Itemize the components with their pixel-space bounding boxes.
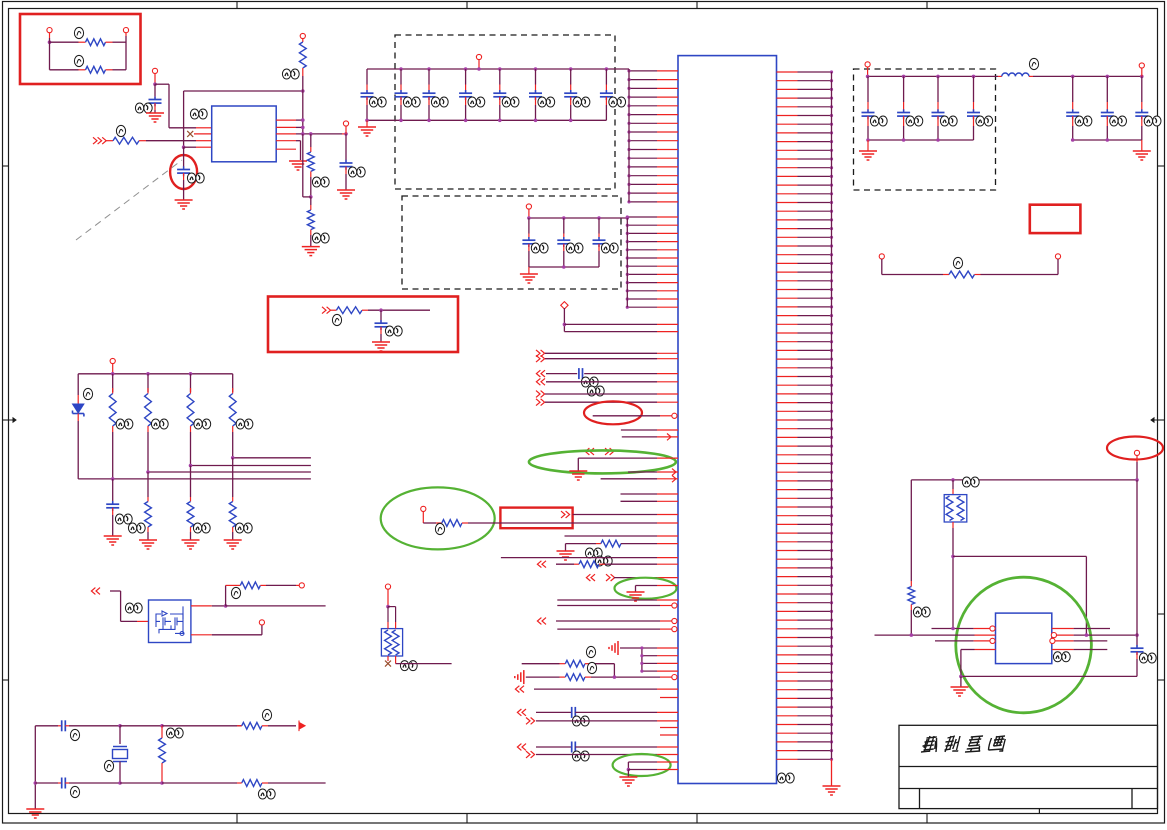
resistor RA1 label xyxy=(151,419,168,429)
cap bank 4 bottom rail xyxy=(1071,138,1142,142)
zener diode D1 xyxy=(73,374,84,479)
short pin stub xyxy=(660,734,678,736)
main IC left pin group 2 with bus xyxy=(626,215,678,308)
capacitor C6 xyxy=(35,720,120,731)
input chevrons xyxy=(91,588,100,595)
wire xyxy=(110,591,149,621)
resistor RA2 of array xyxy=(187,374,194,466)
resistor R11 label xyxy=(166,728,183,738)
capacitor C33 of bank 3 xyxy=(967,76,980,140)
ground xyxy=(569,471,587,480)
capacitor C12 label xyxy=(431,97,448,107)
capacitor C11 xyxy=(1131,480,1144,677)
U2 right pin 1 net xyxy=(1052,628,1110,630)
resistor RA0 label xyxy=(116,419,133,429)
wire to U1 pin 1 xyxy=(155,84,212,128)
highlight box (red) around R1 R2 xyxy=(20,14,141,84)
port pin P2 xyxy=(123,28,128,70)
capacitor C8 label xyxy=(581,377,604,396)
ground xyxy=(104,536,122,545)
wire xyxy=(396,663,452,665)
decoupling capacitor C13 of bank 1 xyxy=(459,69,472,120)
node junction xyxy=(379,308,383,312)
signal line with series capacitor C10 xyxy=(517,742,678,753)
resistor R3 with port pin xyxy=(299,33,306,133)
port pin P11 xyxy=(1134,450,1139,480)
pulldown resistor RB1 xyxy=(187,466,194,541)
signal line to inverted pin xyxy=(557,627,677,632)
resistor pack RP1 xyxy=(381,622,402,664)
power pin for cap bank 2 xyxy=(526,204,531,218)
resistor R5 xyxy=(307,197,314,247)
U2 right pin 3 net xyxy=(1050,638,1108,643)
highlight ellipse (red) on port xyxy=(1107,437,1163,460)
resistor R1 xyxy=(50,39,127,46)
resistor R10 label xyxy=(262,709,271,720)
decoupling capacitor C14 of bank 1 xyxy=(493,69,506,120)
resistor R19 xyxy=(908,480,915,635)
decoupling capacitor C11 of bank 1 xyxy=(395,69,408,120)
branch wire to IC2 right xyxy=(951,555,1086,635)
U2 left pin 4 net xyxy=(961,650,996,677)
signal line xyxy=(557,599,678,601)
capacitor C14 label xyxy=(502,97,519,107)
capacitor C21 label xyxy=(566,243,583,253)
signal line xyxy=(621,500,679,502)
capacitor C6 label xyxy=(70,729,79,740)
signal line xyxy=(526,718,678,725)
resistor R12 label xyxy=(258,789,275,799)
bidir chevrons xyxy=(585,448,613,455)
cap bank 3 bottom rail xyxy=(866,138,973,142)
signal line with output chevrons xyxy=(536,391,678,398)
capacitor C30 label xyxy=(870,116,887,126)
decoupling capacitor C21 of bank 2 xyxy=(557,218,570,267)
node junction U1 pin4 xyxy=(182,145,212,149)
main IC right bus ground drop xyxy=(823,759,841,795)
resistor R7 xyxy=(331,307,430,314)
crystal Y1 label xyxy=(104,760,113,771)
signal line xyxy=(614,577,678,579)
highlight box (red) empty xyxy=(1030,205,1081,233)
capacitor C1 xyxy=(149,84,162,113)
resistor R12 xyxy=(237,780,326,787)
decoupling capacitor C22 of bank 2 xyxy=(593,218,606,267)
capacitor C30 of bank 3 xyxy=(862,76,875,140)
dual MOSFET Q1 body xyxy=(149,600,191,643)
highlight circle (green) around U2 xyxy=(956,577,1092,713)
highlight ellipse (green) 1 xyxy=(529,450,676,473)
main IC U1 reference label xyxy=(777,773,794,783)
ground xyxy=(337,190,355,199)
ground xyxy=(289,161,307,170)
short pin stub xyxy=(660,727,678,729)
company name text (CJK calligraphic) xyxy=(921,736,1007,752)
resistor R14 labels xyxy=(585,548,612,566)
node junction xyxy=(386,605,395,622)
capacitor C10 label xyxy=(369,97,386,107)
IC U1 reference label xyxy=(190,109,207,119)
no-connect X on U1 pin 2 xyxy=(187,131,212,137)
resistor R9 to port xyxy=(226,582,300,606)
ground xyxy=(358,120,376,136)
bidir chevrons xyxy=(586,574,614,581)
capacitor C41 label xyxy=(1110,116,1127,126)
signal line with input chevrons and resistor R15 xyxy=(537,561,678,568)
decoupling capacitor C16 of bank 1 xyxy=(564,69,577,120)
main IC right pin comb (80 pins) with vertical bus net xyxy=(777,70,834,761)
pulldown resistor RB0 xyxy=(145,472,152,540)
resistor R16 xyxy=(522,660,615,677)
no-connect X xyxy=(385,661,391,667)
resistor R1 label xyxy=(74,27,83,38)
port pin P4 xyxy=(110,358,115,373)
ground xyxy=(26,809,44,818)
resistor R2 label xyxy=(74,55,83,66)
resistor RB2 label xyxy=(235,523,252,533)
resistor RB1 label xyxy=(193,523,210,533)
decoupling capacitor C10 of bank 1 xyxy=(361,69,374,120)
decoupling capacitor C12 of bank 1 xyxy=(423,69,436,120)
resistor RA3 label xyxy=(236,419,253,429)
inductor L1 xyxy=(998,73,1033,76)
node junction xyxy=(153,82,157,86)
ground xyxy=(619,777,637,786)
resistor R6 xyxy=(106,137,212,144)
highlight ellipse (green) 2 xyxy=(381,487,495,549)
dashed group box 1 xyxy=(395,35,615,189)
capacitor C33 label xyxy=(976,116,993,126)
right rail after inductor xyxy=(1033,75,1144,79)
dashed group box 2 xyxy=(402,196,621,289)
resistor R13 label xyxy=(435,523,444,534)
resistor R4 xyxy=(307,134,314,197)
U2 right pin 4 net xyxy=(1052,649,1108,651)
port pin P8 with resistor R13 xyxy=(421,506,678,526)
resistor RA2 label xyxy=(194,419,211,429)
U2 bottom rail xyxy=(959,675,1137,679)
resistor R4 label xyxy=(312,177,329,187)
signal line xyxy=(621,429,678,431)
signal line to inverted pin xyxy=(557,603,677,608)
IC U1 body xyxy=(212,106,277,162)
resistor array top rail xyxy=(78,372,233,376)
ground xyxy=(182,540,200,549)
resistor R16 label xyxy=(586,646,595,657)
highlight box (red) on signal xyxy=(500,508,572,529)
capacitor C5 xyxy=(106,479,119,536)
highlight ellipse (red) xyxy=(584,401,642,424)
signal line with output chevrons xyxy=(536,350,678,357)
capacitor C31 of bank 3 xyxy=(897,76,910,140)
decoupling capacitor C17 of bank 1 xyxy=(600,69,613,120)
U2 left pin 1 net xyxy=(932,626,996,631)
cap bank 3 top rail xyxy=(866,75,998,79)
capacitor C41 of bank 4 xyxy=(1101,76,1114,140)
array output wires to bus xyxy=(78,456,311,481)
signal line with input chevrons and series capacitor C8 xyxy=(536,368,678,379)
decoupling capacitor C15 of bank 1 xyxy=(529,69,542,120)
IC U2 body xyxy=(996,613,1052,664)
capacitor C16 label xyxy=(573,97,590,107)
capacitor C9 label xyxy=(572,716,589,726)
signal line with arrow xyxy=(622,434,678,441)
capacitor C13 label xyxy=(468,97,485,107)
port pin P9 xyxy=(879,254,884,275)
Q1 drain wire xyxy=(191,604,326,608)
ground xyxy=(224,540,242,549)
capacitor C10 label xyxy=(572,751,589,761)
capacitor C4 xyxy=(375,310,388,342)
crystal bottom rail xyxy=(118,781,237,785)
capacitor C40 of bank 4 xyxy=(1066,76,1079,140)
resistor R11 xyxy=(159,726,166,783)
capacitor C1 label xyxy=(135,103,152,113)
bidir chevrons xyxy=(517,709,526,716)
resistor R18 label xyxy=(953,257,962,268)
Q1 source wire to port xyxy=(191,625,262,635)
capacitor C15 label xyxy=(538,97,555,107)
zener diode D1 label xyxy=(83,388,92,399)
resistor R2 xyxy=(50,66,127,73)
power pin xyxy=(1139,63,1144,77)
resistor R10 xyxy=(237,722,296,729)
capacitor C2 xyxy=(177,147,190,200)
wire xyxy=(162,725,242,727)
U1 right pin wires xyxy=(276,118,348,160)
grounded stub pair net xyxy=(627,762,678,777)
signal line long xyxy=(501,557,678,559)
net stub pair with pin diamond xyxy=(561,302,678,332)
IC U2 reference label xyxy=(1053,652,1070,662)
input port chevrons xyxy=(93,137,106,144)
inductor L1 label xyxy=(1029,58,1038,69)
capacitor C7 xyxy=(35,778,120,789)
signal line with input chevrons to inverted pin xyxy=(537,618,677,625)
highlight box (red) around RC filter xyxy=(268,297,458,353)
decoupling capacitor C20 of bank 2 xyxy=(522,218,535,267)
node junction at R1 input xyxy=(48,38,52,70)
cap bank 1 bottom rail xyxy=(365,119,606,123)
resistor R14 net with ground stub xyxy=(566,540,679,551)
signal line with series capacitor C9 xyxy=(536,707,678,718)
signal line with output chevrons xyxy=(536,355,678,362)
title block xyxy=(899,725,1158,813)
port pin and capacitor C3 branch xyxy=(340,121,353,190)
capacitor C42 of bank 4 xyxy=(1135,76,1148,140)
capacitor C31 label xyxy=(906,116,923,126)
capacitor C32 of bank 3 xyxy=(932,76,945,140)
resistor R17 label xyxy=(587,662,596,673)
resistor R17 with sideways ground xyxy=(515,670,677,684)
U2 left pin 2 net xyxy=(875,633,996,637)
U2 left pin 3 net xyxy=(935,638,995,643)
dashed group box 3 xyxy=(854,69,996,190)
node junction xyxy=(303,134,313,199)
resistor R7 label xyxy=(332,314,341,325)
ground xyxy=(1133,140,1151,160)
main IC left pin group 1 with bus xyxy=(627,69,678,203)
cap bank 2 bottom rail xyxy=(529,265,599,269)
dashed construction line xyxy=(76,160,182,240)
MOSFET Q1 label xyxy=(125,603,142,613)
signal line with arrow tip xyxy=(601,475,678,482)
port pin P3 xyxy=(152,68,157,84)
resistor RA3 of array xyxy=(229,374,236,458)
capacitor C42 label xyxy=(1144,116,1161,126)
highlight ellipse (green) 4 xyxy=(613,754,671,776)
port pin P1 xyxy=(47,28,52,39)
ground xyxy=(520,267,538,283)
main IC U1 body xyxy=(678,56,777,784)
resistor R19 label xyxy=(913,607,930,617)
signal line with input chevrons xyxy=(515,686,678,693)
resistor R6 label xyxy=(116,125,125,136)
ground xyxy=(302,247,320,256)
resistor pack RP2 label xyxy=(962,477,979,487)
ground xyxy=(557,551,575,560)
grounded stub net xyxy=(578,458,678,471)
U2 right pin 2 net xyxy=(1051,633,1138,638)
ground xyxy=(146,113,164,122)
resistor R9 label xyxy=(231,587,240,598)
grounded stub net xyxy=(636,586,679,593)
port pin P7 xyxy=(385,584,390,607)
power pin for cap bank 1 xyxy=(476,54,481,69)
port pin P10 xyxy=(1055,254,1060,275)
node junction xyxy=(118,724,164,728)
signal line with output chevrons xyxy=(536,399,678,406)
resistor RB0 label xyxy=(128,523,145,533)
capacitor C3 label xyxy=(348,167,365,177)
sideways ground net with pin group bus xyxy=(609,641,678,673)
resistor pack RP2 xyxy=(944,480,967,629)
capacitor C2 label xyxy=(187,173,204,183)
signal line xyxy=(621,493,679,495)
signal line with chevrons from box xyxy=(561,511,678,518)
capacitor C22 label xyxy=(601,243,618,253)
capacitor C17 label xyxy=(609,97,626,107)
capacitor C32 label xyxy=(940,116,957,126)
input chevrons xyxy=(322,307,331,314)
signal line xyxy=(526,751,678,758)
port pin P5 xyxy=(299,583,304,588)
cap bank 2 top rail xyxy=(527,216,629,220)
pulldown resistor RB2 xyxy=(229,458,236,540)
clock output marker xyxy=(299,721,305,732)
resistor RA1 of array xyxy=(145,374,152,472)
signal line with input chevrons xyxy=(536,378,678,385)
capacitor C40 label xyxy=(1075,116,1092,126)
capacitor C5 label xyxy=(115,514,132,524)
resistor pack RP1 label xyxy=(400,661,417,671)
resistor R5 label xyxy=(312,233,329,243)
crystal circuit left rail xyxy=(34,726,38,809)
capacitor C20 label xyxy=(531,243,548,253)
ground xyxy=(859,140,877,160)
resistor R3 label xyxy=(282,69,299,79)
crystal Y1 xyxy=(113,726,128,783)
signal line to inverted pin xyxy=(593,413,677,418)
capacitor C2 (red highlight ellipse) xyxy=(170,155,197,189)
capacitor C4 label xyxy=(385,326,402,336)
ground xyxy=(951,676,969,696)
power distribution wire xyxy=(911,478,1138,482)
signal line with arrow tip xyxy=(628,469,678,476)
signal line xyxy=(565,535,679,537)
wire top net xyxy=(184,89,305,147)
ground xyxy=(139,540,157,549)
resistor RA0 of array xyxy=(109,374,116,479)
capacitor C7 label xyxy=(70,786,79,797)
ground xyxy=(627,592,645,601)
cap bank 1 top rail xyxy=(367,67,629,71)
ground xyxy=(175,200,193,209)
resistor R18 between ports xyxy=(882,271,1058,278)
power pin xyxy=(865,62,870,77)
short pin stub xyxy=(660,697,678,699)
port pin P6 xyxy=(259,620,264,625)
ground xyxy=(372,342,390,351)
capacitor C11 label xyxy=(1139,653,1156,663)
highlight ellipse (green) 3 xyxy=(615,578,677,599)
capacitor C11 label xyxy=(403,97,420,107)
